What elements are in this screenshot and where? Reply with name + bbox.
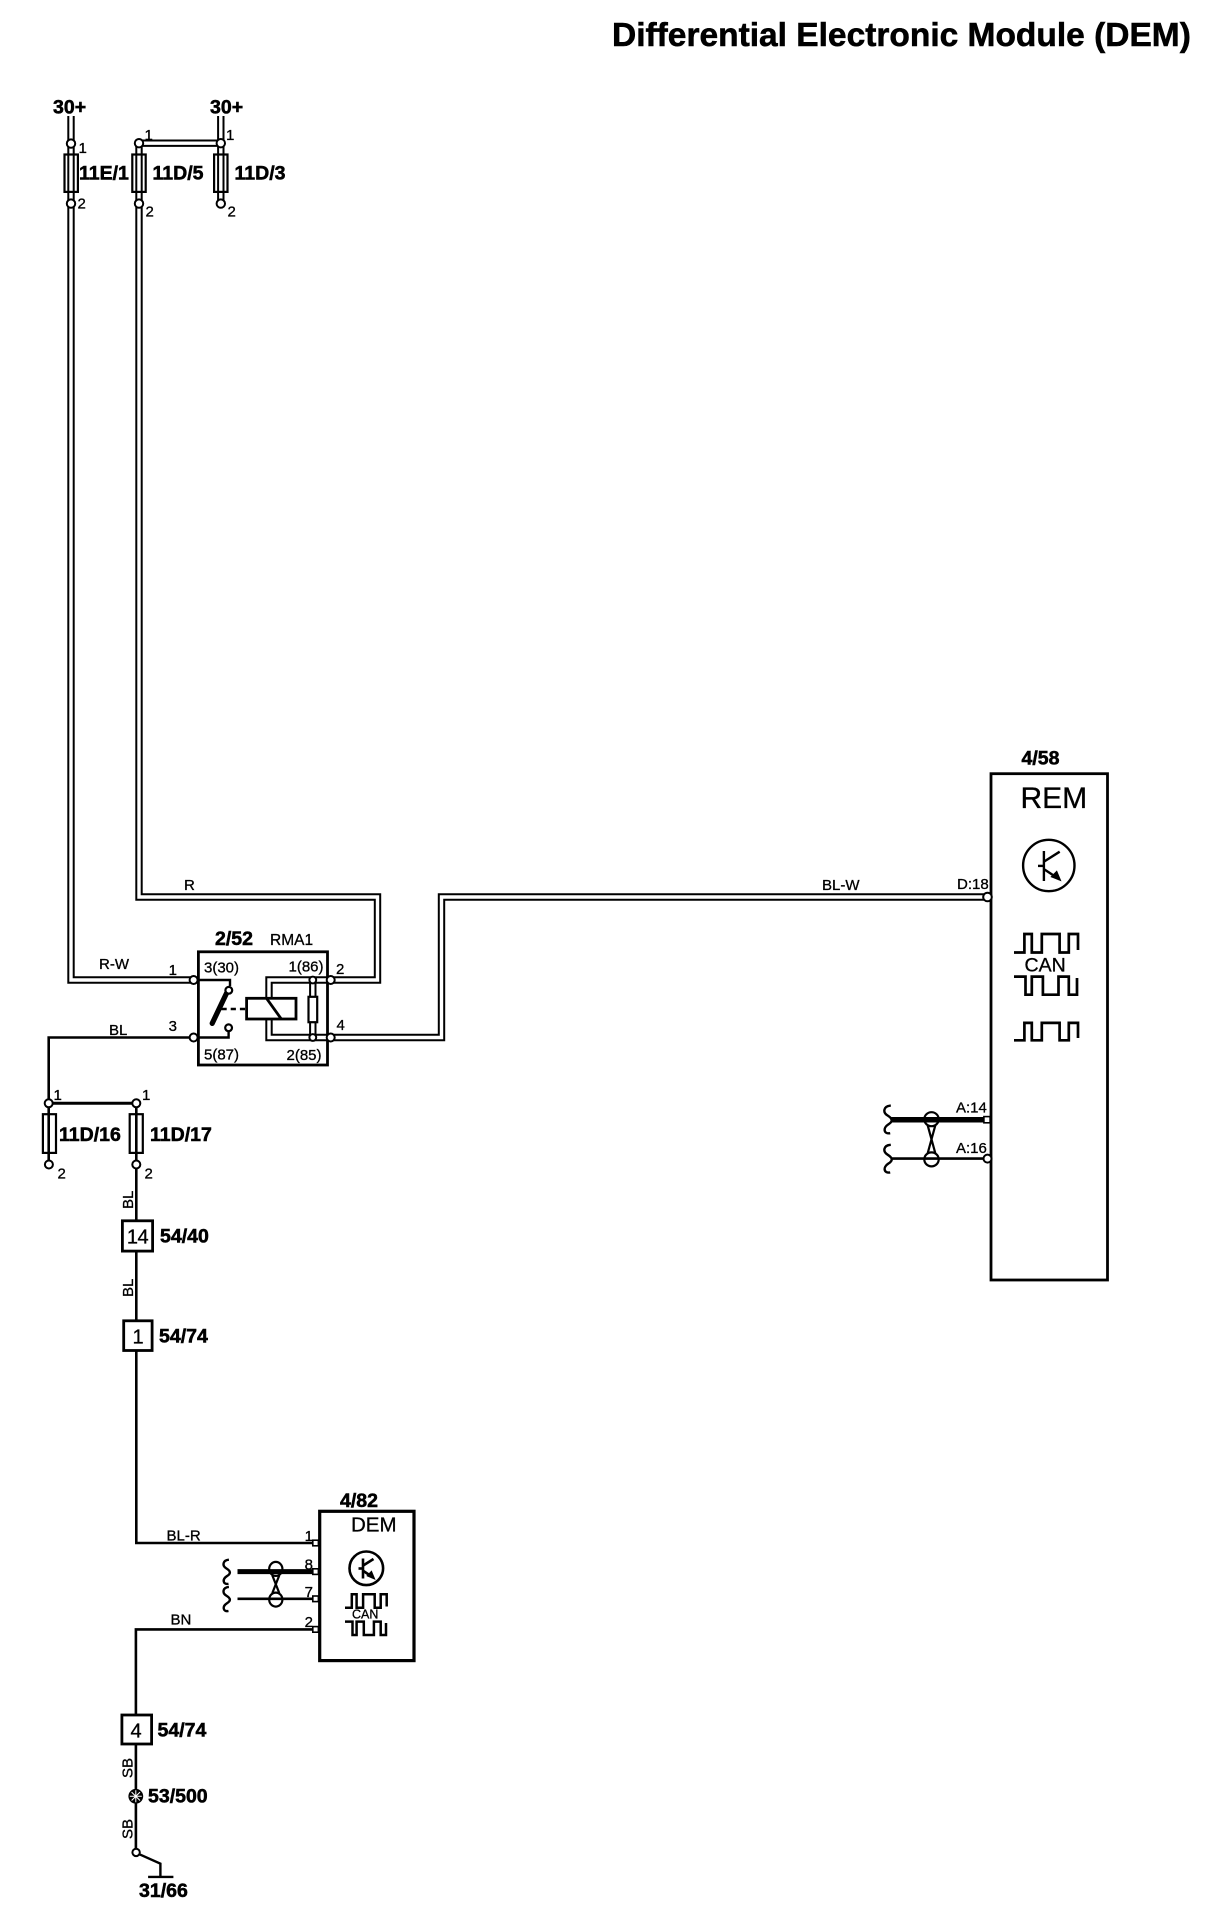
- svg-text:2: 2: [305, 1614, 313, 1631]
- relay switch pivot and contact: [225, 987, 232, 994]
- svg-text:4/58: 4/58: [1022, 748, 1060, 770]
- svg-text:3: 3: [169, 1018, 177, 1035]
- relay switch wire from pin1: [198, 980, 230, 986]
- splice 53/500: [128, 1789, 143, 1804]
- pin circles: 11D/16: [45, 1099, 53, 1107]
- DEM transistor symbol: [350, 1552, 384, 1586]
- svg-text:1: 1: [132, 1327, 143, 1349]
- pin circle REM A:16: [984, 1155, 992, 1163]
- svg-text:DEM: DEM: [351, 1514, 397, 1537]
- svg-text:31/66: 31/66: [139, 1880, 188, 1902]
- svg-text:2: 2: [145, 1166, 153, 1183]
- svg-text:2(85): 2(85): [287, 1047, 322, 1064]
- wire CAN-L to DEM pin 7: [238, 1598, 316, 1601]
- pin squares DEM: [313, 1540, 319, 1546]
- svg-text:1: 1: [169, 962, 177, 979]
- svg-text:D:18: D:18: [957, 876, 989, 893]
- break squiggle A:16: [884, 1145, 891, 1173]
- REM box 4/58: [991, 774, 1108, 1280]
- connector 11D/17 body: [130, 1114, 143, 1153]
- svg-text:1: 1: [305, 1528, 313, 1545]
- svg-text:1: 1: [142, 1087, 150, 1104]
- wire BL net: 11D/17 down through 54/40, 54/74 to DEM pin 1 (BL-R): [136, 1103, 315, 1543]
- svg-text:SB: SB: [120, 1758, 137, 1778]
- fuse 11D/5: [132, 155, 145, 192]
- svg-text:14: 14: [127, 1227, 149, 1249]
- ground 31/66 symbol: [132, 1849, 139, 1856]
- svg-text:53/500: 53/500: [148, 1786, 208, 1808]
- pin circles: relay: [190, 976, 198, 984]
- svg-text:2: 2: [228, 204, 236, 221]
- svg-text:SB: SB: [120, 1819, 137, 1839]
- svg-text:R: R: [184, 877, 195, 894]
- connector 54/40 pin 14 square: [122, 1221, 152, 1251]
- svg-text:BN: BN: [171, 1612, 192, 1629]
- svg-text:54/40: 54/40: [160, 1226, 209, 1248]
- svg-text:BL: BL: [120, 1279, 137, 1297]
- wire resistor branch bottom (double line): [309, 1022, 316, 1037]
- wire CAN-H thick to REM A:14: [891, 1117, 988, 1123]
- svg-text:11E/1: 11E/1: [79, 163, 129, 185]
- connector 54/74 pin 1 square: [124, 1321, 152, 1351]
- relay 2/52 RMA1 box: [198, 952, 327, 1065]
- wire BL-W net: relay coil bottom to pin 4, right and up to REM D:18 (double line): [269, 897, 988, 1038]
- svg-text:BL-W: BL-W: [822, 877, 860, 894]
- svg-text:BL-R: BL-R: [167, 1528, 201, 1545]
- svg-text:CAN: CAN: [1025, 955, 1066, 977]
- relay resistor: [309, 997, 318, 1022]
- svg-text:Differential Electronic Module: Differential Electronic Module (DEM): [612, 17, 1191, 54]
- svg-text:1: 1: [54, 1087, 62, 1104]
- svg-text:1: 1: [79, 140, 87, 157]
- break squiggle DEM pin8: [224, 1560, 230, 1584]
- break squiggle A:14: [884, 1106, 891, 1134]
- svg-text:A:16: A:16: [956, 1140, 987, 1157]
- relay switch arm: [212, 993, 227, 1024]
- relay switch contact wire from pin3: [198, 1031, 228, 1037]
- svg-text:2/52: 2/52: [215, 928, 253, 950]
- svg-text:30+: 30+: [210, 97, 243, 119]
- relay junction circles: [309, 977, 316, 984]
- svg-text:BL: BL: [120, 1191, 137, 1209]
- REM CAN waveform top: [1014, 934, 1078, 953]
- REM transistor symbol: [1023, 840, 1074, 891]
- svg-text:5(87): 5(87): [204, 1047, 239, 1064]
- connector 11D/16 body: [43, 1114, 56, 1153]
- twisted pair DEM: [269, 1562, 282, 1576]
- svg-text:2: 2: [146, 204, 154, 221]
- wire 11D/16 through fuse body: [47, 1103, 50, 1164]
- fuse 11E/1: [65, 155, 78, 192]
- wire 11D/3 column from 30+ through fuse (double line): [217, 116, 224, 204]
- svg-text:11D/3: 11D/3: [235, 163, 286, 185]
- wire link 11D/5 pin1 to 11D/3 pin1 (double line): [139, 139, 221, 146]
- wire link 11D/16 pin1 to 11D/17 pin1: [49, 1102, 137, 1105]
- svg-text:4/82: 4/82: [340, 1490, 378, 1512]
- wire CAN-H thick to DEM pin 8: [238, 1569, 316, 1574]
- svg-text:1: 1: [145, 127, 153, 144]
- svg-text:1(86): 1(86): [289, 959, 324, 976]
- wire BL net: relay pin 3 left, down to 11D/16 pin 1: [49, 1038, 194, 1104]
- wire R net: 11D/5 down, right, down to relay pin 2, into coil (double line): [139, 143, 378, 998]
- svg-text:CAN: CAN: [352, 1608, 378, 1622]
- wire BN net: DEM pin 2 left and down to 54/74 pin 4, splice, ground: [136, 1629, 316, 1852]
- svg-text:2: 2: [58, 1166, 66, 1183]
- svg-text:BL: BL: [109, 1022, 127, 1039]
- wire resistor branch top (double line): [309, 980, 316, 997]
- svg-text:8: 8: [305, 1557, 313, 1574]
- pin circles: fuse 11D/5: [135, 139, 143, 147]
- pin circles: fuse 11D/3: [217, 139, 225, 147]
- svg-text:R-W: R-W: [99, 956, 130, 973]
- wire CAN-L to REM A:16: [891, 1157, 988, 1160]
- fuse 11D/3: [214, 155, 227, 192]
- svg-text:54/74: 54/74: [158, 1720, 207, 1742]
- svg-text:2: 2: [336, 961, 344, 978]
- svg-text:54/74: 54/74: [159, 1326, 208, 1348]
- svg-text:3(30): 3(30): [204, 960, 239, 977]
- svg-text:1: 1: [226, 127, 234, 144]
- svg-text:30+: 30+: [53, 97, 86, 119]
- break squiggle DEM pin7: [224, 1587, 230, 1611]
- svg-text:11D/17: 11D/17: [150, 1124, 212, 1146]
- svg-text:A:14: A:14: [956, 1100, 987, 1117]
- DEM CAN waveform top: [345, 1594, 387, 1608]
- svg-text:RMA1: RMA1: [270, 932, 313, 949]
- svg-text:2: 2: [78, 196, 86, 213]
- REM CAN waveform middle (inverted): [1014, 977, 1077, 995]
- svg-text:4: 4: [130, 1721, 141, 1743]
- svg-text:4: 4: [337, 1017, 345, 1034]
- relay coil diagonal: [267, 998, 282, 1019]
- wire R-W net: fuse 11E/1 down to relay pin 1 (double line): [71, 116, 194, 980]
- relay dashed link: [222, 1008, 247, 1010]
- pin square REM A:14: [984, 1117, 990, 1123]
- svg-text:11D/16: 11D/16: [59, 1124, 121, 1146]
- pin circle REM D:18: [983, 893, 992, 902]
- svg-text:REM: REM: [1021, 782, 1088, 815]
- twisted pair REM: [924, 1112, 938, 1126]
- REM CAN waveform bottom: [1014, 1023, 1078, 1040]
- DEM box 4/82: [320, 1511, 414, 1660]
- svg-text:11D/5: 11D/5: [153, 163, 204, 185]
- DEM CAN waveform bottom (inverted): [345, 1622, 386, 1635]
- svg-text:7: 7: [305, 1584, 313, 1601]
- connector 54/74 pin 4 square: [122, 1715, 152, 1744]
- relay coil: [247, 998, 296, 1019]
- pin circles: fuse 11E/1: [67, 139, 75, 147]
- pin circles: 11D/17: [132, 1099, 140, 1107]
